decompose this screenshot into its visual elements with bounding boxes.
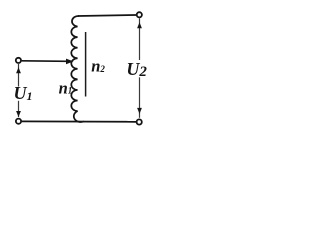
svg-text:n1: n1: [59, 78, 73, 97]
svg-text:U1: U1: [14, 83, 33, 103]
svg-text:U2: U2: [126, 59, 147, 80]
svg-text:n2: n2: [91, 57, 105, 76]
